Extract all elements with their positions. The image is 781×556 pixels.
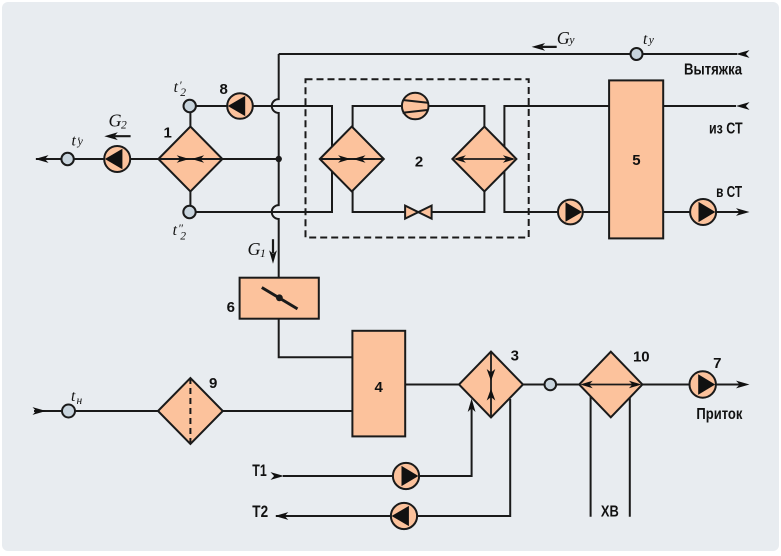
pump T2 (triangle left)	[391, 503, 417, 529]
wire: XB left drop	[590, 385, 592, 517]
svg-text:из СТ: из СТ	[709, 120, 743, 137]
svg-text:у: у	[77, 136, 84, 148]
arrow из СТ line (points left)	[736, 102, 750, 110]
node t'2	[184, 100, 196, 112]
pump 7 (triangle right)	[690, 371, 716, 397]
wire: T1 line with riser to mixer3	[283, 408, 472, 476]
pump before exchanger5 (triangle right)	[558, 200, 583, 225]
svg-text:2: 2	[180, 87, 186, 99]
pump after exchanger5 (triangle right)	[690, 199, 716, 225]
wire: t'2 - pump8 - box2 left vertical - t''2 loop	[195, 106, 332, 212]
exchanger2L through line	[320, 158, 384, 160]
wire: middle t'y line	[36, 158, 279, 160]
svg-text:2: 2	[415, 153, 423, 170]
pump T1 (triangle right)	[393, 463, 419, 489]
arrow Приток line (points right)	[736, 381, 750, 389]
wire: main riser with two hops	[272, 54, 279, 278]
node after mixer 3	[545, 379, 557, 391]
exchanger2R double arrow	[453, 155, 515, 163]
wire: box2 right vertical, из СТ and в СТ lines	[504, 106, 740, 212]
circulation pump (fan circle) in unit 2	[402, 93, 429, 120]
svg-text:t: t	[643, 31, 648, 48]
G1 flow arrow (down)	[269, 250, 277, 264]
svg-text:4: 4	[375, 379, 384, 396]
heat exchanger 2 left diamond	[320, 127, 384, 192]
svg-text:1: 1	[260, 248, 266, 260]
wire: t_н supply line	[34, 410, 352, 412]
svg-text:8: 8	[220, 81, 228, 98]
arrowheads at line ends	[33, 43, 750, 520]
exchanger1 inward arrows	[177, 155, 366, 163]
pump 8 (circle, triangle left)	[227, 93, 253, 119]
arrow в СТ line (points right)	[736, 208, 750, 216]
text labels: numbers	[164, 81, 722, 396]
heat exchanger 5 (rect)	[609, 80, 663, 238]
svg-text:6: 6	[227, 299, 235, 316]
wire: recovery loop top	[353, 106, 485, 128]
filter9 dashed diagonal	[189, 378, 191, 444]
exchanger1 through line	[158, 158, 222, 160]
arrow T2 end (points left)	[275, 512, 289, 520]
node t'y	[61, 153, 73, 165]
wire: exhaust (Вытяжка) top line	[279, 53, 737, 55]
G2 flow arrow	[104, 132, 118, 140]
wire: XB right drop	[629, 385, 631, 517]
svg-text:ХВ: ХВ	[601, 504, 619, 521]
svg-text:t: t	[71, 388, 76, 405]
heat exchanger 2 right diamond	[452, 127, 516, 192]
node t_у	[631, 48, 643, 60]
arrow left end of t'y line	[35, 155, 49, 163]
svg-text:G: G	[248, 239, 261, 259]
svg-text:t: t	[173, 222, 178, 239]
cooler10 double arrow	[580, 381, 641, 389]
damper 6 handle	[262, 288, 298, 309]
dashed box unit 2	[306, 79, 529, 237]
svg-text:2: 2	[121, 120, 127, 132]
svg-text:Т2: Т2	[252, 503, 268, 521]
node t_н	[62, 405, 75, 418]
svg-text:Приток: Приток	[696, 406, 743, 423]
arrow T1 riser up into mixer3	[468, 399, 476, 413]
arrow t_н line start (points right)	[33, 407, 47, 415]
svg-text:G: G	[557, 28, 570, 48]
svg-text:у: у	[648, 34, 655, 46]
junction node on riser	[276, 156, 282, 162]
svg-text:7: 7	[713, 355, 721, 372]
svg-text:10: 10	[633, 349, 650, 366]
heat exchanger 1 (diamond)	[158, 127, 222, 192]
filter 9 (diamond)	[158, 378, 223, 444]
wire: exchanger1 vertical through	[189, 106, 191, 212]
svg-text:н: н	[77, 395, 83, 407]
svg-text:в СТ: в СТ	[716, 184, 742, 201]
fan chords	[403, 100, 428, 113]
valve (bowtie) in unit 2	[405, 206, 418, 219]
svg-text:9: 9	[209, 375, 217, 392]
wire: riser bottom to heater4	[279, 318, 353, 357]
cooler 10 (diamond)	[579, 352, 642, 418]
mixer3 vertical inward arrows	[487, 352, 496, 418]
exchanger2L inward arrows	[338, 155, 351, 163]
damper 6 (rect)	[240, 278, 319, 319]
heater 4 (rect)	[352, 331, 405, 437]
svg-text:1: 1	[164, 124, 172, 141]
wire: recovery loop bottom	[353, 191, 485, 213]
arrow T1 start (points right)	[271, 472, 285, 480]
svg-text:Вытяжка: Вытяжка	[684, 62, 742, 79]
svg-text:t: t	[72, 132, 77, 149]
wire: heater4 to Приток line	[405, 384, 740, 386]
text labels: math italics	[71, 28, 655, 407]
node t''2	[183, 206, 195, 218]
mixer 3 (diamond)	[459, 352, 523, 418]
Gу flow arrow	[532, 43, 546, 51]
text labels: bold names	[252, 62, 743, 521]
svg-text:5: 5	[632, 152, 640, 169]
svg-text:у: у	[568, 34, 575, 46]
svg-text:2: 2	[180, 231, 186, 243]
wire: T2 line from mixer3	[276, 399, 510, 516]
svg-text:G: G	[109, 111, 122, 131]
svg-text:t: t	[174, 79, 179, 96]
pump t'y (circle, triangle left)	[104, 146, 130, 172]
svg-text:3: 3	[511, 347, 519, 364]
svg-text:Т1: Т1	[252, 462, 266, 480]
arrow Вытяжка line (points left)	[736, 50, 750, 58]
